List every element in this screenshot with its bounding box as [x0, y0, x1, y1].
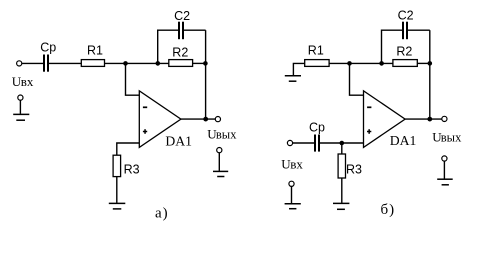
svg-text:R2: R2 — [172, 45, 188, 59]
minus marker (b) — [367, 106, 371, 108]
node feedback right (a) — [203, 61, 208, 66]
ground R3 (b) — [333, 203, 349, 209]
wire output reference stem (a) — [218, 153, 220, 171]
ground input (a) — [13, 114, 29, 120]
capacitor C2 (b) — [402, 22, 408, 40]
svg-text:R2: R2 — [396, 45, 412, 59]
input terminal (a) — [17, 61, 22, 66]
wire junction down to op-amp minus — [126, 63, 140, 95]
resistor R2 (b) — [393, 60, 417, 67]
wire node down to R3 (b) — [341, 143, 343, 154]
svg-text:Cp: Cp — [309, 121, 325, 135]
svg-text:DA1: DA1 — [390, 133, 417, 148]
svg-text:R3: R3 — [124, 163, 140, 177]
wire output reference stem (b) — [443, 161, 445, 179]
wire input to Cp — [22, 62, 43, 64]
svg-text:а): а) — [155, 206, 169, 222]
node feedback right (b) — [428, 61, 433, 66]
svg-text:Uвх: Uвх — [281, 156, 303, 171]
svg-text:Uвых: Uвых — [207, 127, 237, 142]
wire R1 to R2 (b) — [329, 62, 393, 64]
wire feedback vertical down to output (b) — [429, 30, 431, 119]
resistor R3 (b) — [338, 154, 345, 178]
wire C2 to right vertical (b) — [408, 29, 430, 31]
resistor R3 (a) — [113, 155, 121, 176]
plus marker (a) — [143, 129, 147, 134]
wire R3 to ground (b) — [341, 178, 343, 203]
svg-text:C2: C2 — [174, 9, 190, 23]
svg-text:б): б) — [381, 202, 396, 218]
svg-text:C2: C2 — [398, 8, 414, 22]
ground R1 (b) — [285, 76, 301, 81]
svg-text:Cp: Cp — [40, 40, 56, 54]
wire R3 to ground (a) — [116, 177, 118, 203]
wire R2 to output vertical (b) — [417, 62, 430, 64]
node R3 tap (b) — [340, 141, 345, 146]
wire input to Cp (b) — [293, 142, 315, 144]
capacitor C2 (a) — [178, 22, 184, 40]
wire Cp to op-amp plus (b) — [320, 142, 364, 144]
ground input (b) — [285, 204, 301, 209]
wire op-amp plus input (a) — [117, 143, 140, 155]
svg-text:R1: R1 — [87, 44, 103, 58]
plus marker (b) — [367, 129, 371, 134]
resistor R1 (a) — [81, 60, 104, 67]
ground R3 (a) — [109, 203, 126, 209]
svg-text:Uвх: Uвх — [12, 74, 34, 89]
output reference terminal (b) — [442, 156, 447, 161]
svg-text:R1: R1 — [308, 43, 324, 57]
wire feedback vertical down to output (a) — [205, 30, 207, 119]
wire op-amp output (a) — [181, 118, 215, 120]
op-amp DA1 (b) — [364, 91, 406, 148]
wire op-amp output (b) — [405, 118, 442, 120]
input reference terminal (b) — [289, 181, 294, 186]
ground output (a) — [213, 171, 228, 176]
output terminal (b) — [442, 116, 447, 121]
svg-text:Uвых: Uвых — [432, 130, 462, 145]
node feedback tap (b) — [379, 61, 384, 66]
resistor R2 (a) — [169, 60, 193, 67]
node inverting input junction (a) — [123, 61, 128, 66]
wire R2 to output vertical (a) — [193, 62, 206, 64]
wire ground to R1 (b) — [293, 63, 304, 75]
capacitor Cp (a) — [43, 55, 49, 72]
input reference terminal (a) — [18, 95, 23, 100]
wire junction down to op-amp minus (b) — [350, 63, 364, 95]
input terminal (b) — [287, 140, 292, 145]
wire R1 to R2 — [105, 62, 169, 64]
node output junction (a) — [203, 117, 208, 122]
node output junction (b) — [427, 117, 432, 122]
svg-text:DA1: DA1 — [165, 134, 192, 149]
op-amp DA1 (a) — [139, 91, 181, 148]
node feedback tap (a) — [156, 61, 161, 66]
resistor R1 (b) — [305, 60, 329, 67]
wire C2 branch left+top (b) — [382, 30, 403, 63]
ground output (b) — [437, 179, 453, 185]
capacitor Cp (b) — [314, 135, 320, 152]
output terminal (a) — [215, 117, 220, 122]
wire Cp to R1 — [49, 62, 82, 64]
node inverting input junction (b) — [347, 61, 352, 66]
minus marker (a) — [143, 106, 147, 108]
wire input reference stem (b) — [291, 187, 293, 204]
output reference terminal (a) — [217, 148, 222, 153]
wire input reference stem (a) — [19, 100, 21, 114]
svg-text:R3: R3 — [346, 163, 362, 177]
wire C2 to right vertical (a) — [184, 29, 206, 31]
wire C2 branch left+top (a) — [158, 30, 179, 63]
